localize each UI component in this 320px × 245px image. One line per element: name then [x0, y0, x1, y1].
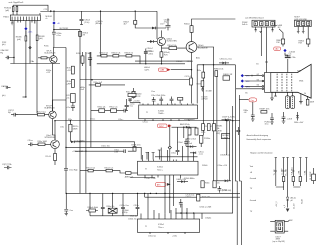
diode D890: [286, 196, 289, 208]
svg-text:un-b: Rygol/RuuS: un-b: Rygol/RuuS: [8, 2, 24, 4]
dot: [169, 197, 170, 198]
resistor R3051: [99, 109, 105, 113]
capacitor C3048: [166, 18, 171, 30]
svg-text:LA0: LA0: [275, 48, 278, 51]
IC2 bottom pins: [145, 175, 181, 213]
svg-text:C/8x: C/8x: [292, 57, 296, 59]
svg-text:C/3(2)x: C/3(2)x: [205, 217, 211, 219]
wire x216.9 down: [217, 76, 222, 180]
wire x203 down: [201, 65, 203, 147]
resistor R3336: [197, 194, 200, 201]
ground P803 b: [302, 32, 305, 34]
svg-text:R30x1 Qk: R30x1 Qk: [100, 52, 108, 54]
pin circle 4: [262, 88, 264, 90]
capacitor C3021: [88, 52, 92, 66]
wire Cxx down: [252, 102, 254, 104]
dot: [112, 193, 113, 194]
capacitor C3365: [101, 204, 105, 214]
coil dashes 3: [286, 74, 288, 92]
wire x239.4: [239, 95, 241, 245]
svg-text:SU/TD182: SU/TD182: [59, 28, 68, 30]
wire Q3016 collector: [54, 121, 56, 140]
svg-text:R30x GxP: R30x GxP: [94, 82, 103, 84]
capacitor C3312: [159, 97, 163, 104]
svg-text:C/C3 +R: C/C3 +R: [185, 76, 193, 78]
capacitor C3047: [125, 99, 129, 110]
resistor R3270: [69, 121, 72, 142]
resistor RW01: [215, 71, 218, 77]
transformer L803: [275, 220, 284, 233]
diamond heater: [283, 49, 286, 52]
svg-text:x_0: x_0: [284, 205, 286, 208]
wire bell lead: [300, 94, 302, 102]
svg-text:TDxx +: TDxx +: [157, 169, 164, 171]
dot: [100, 11, 101, 12]
ground CRT 1: [270, 92, 274, 100]
wire Q3030 emitter: [191, 52, 193, 103]
svg-text:FU3x: FU3x: [44, 46, 49, 48]
svg-text:+5Vs: +5Vs: [28, 32, 33, 34]
resistor R3291: [80, 169, 93, 172]
resistor R3045: [160, 49, 163, 64]
resistor R3026: [71, 79, 74, 87]
resistor R888: [310, 168, 316, 184]
svg-text:+5_SBY: +5_SBY: [282, 168, 284, 176]
wire Q3031 collector: [160, 30, 162, 37]
capacitor C3311: [152, 97, 156, 104]
resistor R381: [281, 39, 284, 47]
capacitor C3313: [170, 97, 174, 104]
spark gap SG2: [291, 92, 295, 108]
wire C3326 drop: [177, 127, 179, 150]
diode D3061: [219, 62, 229, 65]
IC2 top pins: [143, 160, 194, 162]
svg-text:H_off: H_off: [301, 199, 303, 204]
svg-text:R30x2 C/k: R30x2 C/k: [112, 52, 121, 54]
svg-text:D33x5 BA5x: D33x5 BA5x: [184, 118, 195, 121]
CRT body: [271, 64, 311, 98]
transistor Q3016: [51, 140, 60, 149]
diode D3310: [190, 152, 196, 154]
svg-text:Vert: Vert: [250, 165, 254, 168]
svg-text:C/3x4 (+C/3)8: C/3x4 (+C/3)8: [199, 206, 211, 208]
svg-text:+C/3x: +C/3x: [172, 236, 177, 238]
capacitor C3024: [80, 11, 84, 24]
resistor R3046: [128, 94, 136, 97]
svg-text:+C/U04: +C/U04: [133, 100, 139, 102]
resistor R3047: [134, 11, 146, 28]
table line 2: [282, 158, 285, 191]
wire VF3: [244, 85, 262, 87]
wire to red oval: [239, 99, 248, 101]
svg-text:C/8x: C/8x: [114, 152, 118, 154]
dot: [65, 147, 66, 148]
svg-text:680R: 680R: [73, 129, 78, 131]
IC3 pin leads up: [141, 193, 194, 217]
wire Q3030 right: [197, 47, 214, 65]
svg-text:P3001: P3001: [3, 17, 8, 19]
svg-text:+_NA: +_NA: [297, 170, 300, 176]
svg-text:1/4W: 1/4W: [310, 102, 315, 104]
ground P3002 b: [259, 32, 262, 33]
ground P803 a: [297, 32, 300, 34]
svg-text:C/x: C/x: [289, 54, 292, 56]
resistor R3013: [15, 114, 48, 116]
diamond VF1: [241, 74, 244, 77]
wire pin leads: [12, 13, 40, 24]
resistor R3023: [126, 55, 132, 57]
svg-text:(ph): (ph): [2, 44, 6, 46]
wire line y147.4: [66, 147, 141, 159]
IC3 top pins: [141, 217, 194, 219]
resistor R3058: [96, 84, 101, 87]
svg-text:TDA4 +: TDA4 +: [158, 112, 165, 115]
svg-text:Flp: Flp: [0, 53, 3, 55]
svg-text:C/D0x4: C/D0x4: [176, 61, 182, 63]
capacitor C3043 electrolytic: [144, 49, 148, 64]
capacitor C3281: [124, 149, 125, 153]
svg-text:SC2482DM: SC2482DM: [198, 47, 208, 49]
svg-text:+W: +W: [244, 112, 247, 114]
resistor R3331: [201, 181, 204, 188]
resistor RE3019: [54, 154, 57, 166]
svg-text:(up to 10µ BF): (up to 10µ BF): [273, 240, 285, 243]
svg-text:C/Dxx 10x: C/Dxx 10x: [101, 145, 110, 147]
wire y28 row: [146, 27, 166, 29]
svg-text:C/C?: C/C?: [160, 23, 164, 25]
capacitor C3028: [71, 102, 75, 111]
resistor R808: [261, 111, 267, 114]
svg-text:(µH): (µH): [5, 10, 9, 12]
svg-text:C/A18: C/A18: [1, 85, 6, 88]
resistor R3038: [36, 35, 38, 114]
pin circle 1: [262, 75, 264, 77]
wire CRT top cap: [287, 59, 289, 73]
capacitor CS04 series: [52, 32, 56, 34]
dot: [193, 212, 194, 213]
capacitor C3019 left edge: [4, 166, 12, 169]
diamond +B: [53, 11, 55, 21]
resistor R3315: [178, 98, 183, 104]
component FU3027: [71, 94, 76, 103]
dot: [137, 193, 138, 194]
svg-text:C/Dxx: C/Dxx: [28, 140, 33, 142]
dot: [79, 141, 80, 142]
table line 4: [290, 158, 294, 187]
dot: [180, 212, 181, 213]
svg-text:A/Dx: A/Dx: [196, 56, 200, 59]
svg-text:(V8): (V8): [297, 70, 301, 72]
svg-text:Flp: Flp: [8, 112, 11, 114]
svg-text:+Cxx: +Cxx: [199, 154, 203, 156]
capacitor C812: [282, 112, 286, 123]
IC U3301: [139, 105, 198, 119]
svg-text:C/3xx +C/4: C/3xx +C/4: [218, 165, 227, 167]
wire v169.8: [169, 125, 171, 162]
svg-text:C/3x C/3x6 D33x: C/3x C/3x6 D33x: [151, 95, 165, 97]
dot: [186, 212, 187, 213]
resistor R3321: [188, 128, 191, 135]
resistor R3073: [201, 81, 204, 87]
ground P3002 d: [271, 30, 274, 32]
svg-text:FU30: FU30: [76, 53, 81, 55]
wire bottom bus left: [10, 63, 60, 65]
svg-text:Horizontally flash suspension: Horizontally flash suspension: [247, 138, 272, 141]
resistor R3083: [213, 124, 216, 131]
resistor P3D4: [200, 135, 203, 143]
svg-text:Ballast/RuuS: Ballast/RuuS: [45, 52, 57, 55]
wire x213.6 down: [213, 65, 215, 181]
capacitor left edge: [5, 56, 14, 60]
svg-text:DRDP: DRDP: [223, 137, 229, 139]
svg-text:+Ck: +Ck: [66, 98, 69, 100]
resistor R3022: [113, 55, 119, 57]
capacitor C805: [285, 56, 291, 58]
svg-text:G1: G1: [256, 63, 259, 65]
dot: [70, 120, 71, 121]
ground pin1: [11, 23, 13, 25]
wire row y110.6: [91, 110, 122, 112]
svg-text:Ground: Ground: [250, 199, 256, 202]
wire line y151.2: [75, 150, 135, 152]
IC1 bottom pins: [145, 119, 189, 121]
svg-text:A3C2 Quo: A3C2 Quo: [37, 110, 46, 113]
resistor R3021: [101, 55, 107, 57]
dot bus junction: [53, 11, 54, 12]
svg-text:+5V_2: +5V_2: [276, 201, 278, 207]
component C3366: [108, 208, 117, 213]
wire VF2: [244, 80, 262, 82]
wire Q3004 collector: [53, 48, 66, 56]
svg-text:+C/Cxx 680R: +C/Cxx 680R: [72, 151, 84, 153]
capacitor CU04: [128, 99, 132, 100]
diamond VF2: [241, 79, 244, 82]
svg-text:(C/Dx): (C/Dx): [147, 50, 153, 52]
connector P3002: [252, 20, 275, 27]
svg-text:1/C308: 1/C308: [206, 90, 212, 92]
wire drop to IC1: [130, 88, 140, 104]
svg-text:(µH): (µH): [17, 39, 21, 41]
node test diamond: [29, 46, 31, 48]
transistor Q3030: [186, 42, 197, 53]
resistor R3039: [38, 57, 50, 59]
wire SU line: [54, 29, 80, 31]
svg-text:R3xx2 C/x: R3xx2 C/x: [105, 167, 114, 169]
diode D3040: [152, 27, 156, 30]
transformer leads: [270, 220, 289, 231]
connector P803: [295, 20, 312, 26]
diode D3271: [71, 141, 74, 144]
svg-text:C33x1 Gx: C33x1 Gx: [128, 218, 136, 220]
dot: [144, 193, 145, 194]
svg-text:+C/P: +C/P: [67, 70, 72, 72]
svg-text:C/xx: C/xx: [151, 91, 155, 93]
wire x232.7: [202, 106, 233, 213]
svg-text:D3xx NEG: D3xx NEG: [76, 140, 85, 142]
table line 1: [274, 158, 276, 187]
svg-text:R30x3 c/k: R30x3 c/k: [125, 52, 133, 54]
wire P803 leads: [298, 27, 308, 40]
svg-text:R30x4: R30x4: [184, 23, 189, 25]
svg-text:9x8 ck: 9x8 ck: [242, 24, 248, 26]
component DE08: [223, 76, 230, 80]
resistor R3049: [161, 46, 186, 50]
svg-text:C/3x: C/3x: [60, 126, 64, 128]
svg-text:1/Cx: 1/Cx: [265, 124, 269, 126]
svg-text:R/W01 10k: R/W01 10k: [214, 69, 223, 71]
wire resistor tops: [13, 5, 48, 11]
wire y120.75: [55, 120, 240, 122]
dot: [191, 79, 192, 80]
svg-text:R30x4 40µH: R30x4 40µH: [88, 207, 99, 209]
connector P3001: [10, 15, 40, 21]
dot: [54, 120, 55, 121]
svg-text:C/k: C/k: [217, 182, 220, 184]
svg-text:D80x +5kV: D80x +5kV: [294, 122, 304, 124]
capacitor C3014: [11, 113, 18, 117]
capacitor C810: [251, 104, 255, 121]
IC U3303: [137, 219, 199, 232]
svg-text:1/W: 1/W: [276, 42, 280, 44]
transistor Q3012: [49, 111, 57, 119]
svg-text:C/D3: C/D3: [196, 83, 200, 85]
coil dashes 1: [276, 74, 278, 92]
wire P3002 leads: [256, 27, 273, 62]
dot: [156, 193, 157, 194]
diode D3306: [172, 126, 197, 129]
svg-text:+C/x: +C/x: [66, 107, 70, 109]
capacitor C3095 series: [64, 168, 68, 170]
wire x235.4: [235, 65, 237, 245]
arrow on bus: [50, 10, 53, 12]
svg-text:(ph): (ph): [2, 95, 6, 97]
svg-text:R30x C/x: R30x C/x: [107, 206, 115, 208]
svg-text:RC+B: RC+B: [46, 156, 52, 158]
svg-text:P/3xx C/x: P/3xx C/x: [109, 107, 117, 109]
wire IC2 pin rail: [155, 156, 198, 158]
wire rail x80: [79, 30, 81, 194]
svg-text:C3(7)? TBk: C3(7)? TBk: [2, 164, 12, 166]
svg-text:C/3x4: C/3x4: [178, 142, 183, 144]
dot: [226, 120, 227, 121]
dot: [164, 193, 165, 194]
pin circle 3: [262, 86, 264, 88]
wire IC2 stub pins: [146, 150, 161, 160]
component RC3x8: [222, 134, 230, 140]
resistor R3036: [23, 36, 27, 98]
svg-text:4k7: 4k7: [124, 24, 127, 26]
svg-text:C/D3x: C/D3x: [134, 205, 139, 207]
resistor R3016: [12, 5, 14, 15]
dot junction: [13, 57, 14, 58]
wire Q3030 collector: [192, 19, 236, 42]
svg-text:Ground: Ground: [250, 177, 256, 180]
dot: [150, 193, 151, 194]
svg-text:R3xx1 Qk: R3xx1 Qk: [87, 167, 95, 169]
wire x229.7: [229, 121, 231, 181]
capacitor left edge A: [6, 86, 10, 89]
capacitor C3309b: [236, 127, 240, 135]
wire bus y193.4: [66, 192, 240, 194]
resistor R3075: [190, 78, 193, 85]
svg-text:+Cke: +Cke: [56, 35, 60, 37]
svg-text:C/3307 1/4W: C/3307 1/4W: [145, 178, 156, 180]
wire y213.1: [175, 213, 202, 219]
svg-text:R30x: R30x: [205, 182, 209, 184]
IC1 top pins: [143, 104, 193, 106]
IC2 pin leads up: [143, 135, 194, 160]
wire y197 left end: [144, 193, 146, 197]
svg-text:IC33x1: IC33x1: [158, 224, 164, 226]
wire Q3004 emitter: [52, 63, 55, 111]
wire heater to cap: [285, 53, 288, 57]
wire Q3012 emitter: [53, 119, 56, 140]
coil dashes 4: [291, 74, 293, 92]
capacitor C3053: [122, 109, 128, 113]
svg-text:C3/D: C3/D: [201, 132, 206, 134]
wire LA08: [275, 26, 283, 40]
wire v183.8: [183, 127, 185, 138]
svg-text:C/Cxx: C/Cxx: [90, 118, 95, 120]
svg-text:C/D0x4: C/D0x4: [187, 61, 193, 63]
svg-text:D33x5: D33x5: [202, 165, 207, 167]
wire rail x85.9: [85, 52, 87, 193]
svg-text:R328 1/Ox: R328 1/Ox: [132, 145, 141, 147]
svg-text:Oxx: Oxx: [70, 210, 73, 212]
capacitor C3368: [136, 204, 140, 214]
dot: [89, 193, 90, 194]
IC U3302: [138, 161, 199, 175]
svg-text:(DP): (DP): [216, 133, 220, 135]
svg-text:C/3xx: C/3xx: [171, 153, 176, 155]
svg-text:BLAH/RuuS: BLAH/RuuS: [45, 107, 56, 110]
svg-text:C/3xx Qx: C/3xx Qx: [148, 236, 156, 238]
wire parts ground rail: [90, 212, 138, 216]
wire table top ticks: [275, 157, 308, 159]
capacitor C3334: [218, 186, 222, 193]
svg-text:IC3301: IC3301: [158, 110, 164, 112]
svg-text:C/3x8 (L-x): C/3x8 (L-x): [220, 154, 230, 156]
svg-text:zum MOD/Netz Board: zum MOD/Netz Board: [245, 17, 264, 20]
wire line y84.9: [89, 84, 125, 86]
svg-text:BA157/D4x: BA157/D4x: [180, 123, 190, 126]
wire +5V continues: [25, 31, 27, 36]
capacitor C3018: [28, 143, 35, 147]
dot: [232, 120, 233, 121]
dot: [191, 69, 192, 70]
svg-text:TV_NC: TV_NC: [274, 169, 276, 176]
svg-text:G5: G5: [245, 92, 248, 94]
capacitor C811: [270, 113, 274, 124]
resistor R3017: [16, 5, 18, 15]
dot: [183, 127, 184, 128]
capacitor C3090: [64, 210, 68, 214]
svg-text:IC33x1: IC33x1: [157, 167, 163, 169]
svg-text:+FU3x G8: +FU3x G8: [201, 196, 210, 198]
svg-text:1k: 1k: [304, 93, 306, 95]
svg-text:C/Ax: C/Ax: [87, 52, 91, 55]
svg-text:+C/D8: +C/D8: [287, 118, 292, 120]
svg-text:R/3xx Qk: R/3xx Qk: [98, 107, 106, 109]
ground R3073: [201, 87, 204, 91]
resistor R3052: [111, 109, 117, 113]
wire y64.8: [197, 64, 235, 66]
svg-text:Regular and full shut-down: Regular and full shut-down: [250, 152, 273, 155]
svg-text:SC2482DM: SC2482DM: [45, 137, 55, 139]
capacitor C3337: [179, 199, 183, 208]
resistor R3081: [202, 124, 205, 131]
ground C3090: [65, 214, 69, 216]
